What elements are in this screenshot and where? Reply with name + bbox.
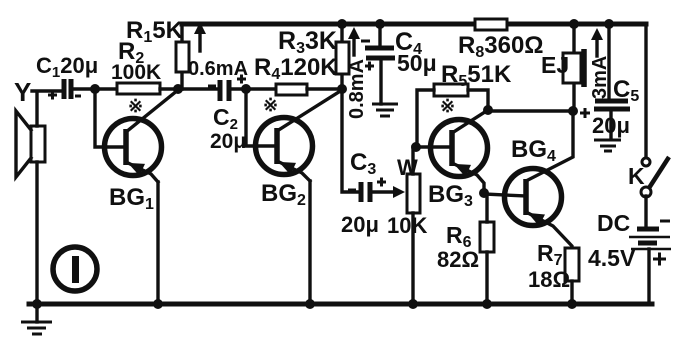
- svg-text:EJ: EJ: [541, 52, 569, 78]
- junction: R3 top at rail: [337, 19, 347, 29]
- svg-text:K: K: [628, 163, 645, 189]
- junction: EJ tap on top rail: [569, 19, 579, 29]
- resistor R2: [117, 83, 160, 94]
- capacitor C4: [361, 24, 395, 71]
- resistor R1: [176, 24, 189, 89]
- switch K: [641, 157, 669, 229]
- svg-text:R8360Ω: R8360Ω: [458, 32, 544, 61]
- svg-text:18Ω: 18Ω: [528, 267, 570, 292]
- svg-text:R551K: R551K: [441, 61, 512, 90]
- junction: BG1 emitter at ground rail: [153, 299, 163, 309]
- svg-text:R33K: R33K: [278, 27, 337, 57]
- wire: C2 to node C and R4: [233, 87, 276, 90]
- ground below C5: [594, 140, 621, 151]
- wire: microphone to ground rail: [35, 162, 38, 304]
- wire: bottom ground rail: [29, 302, 652, 307]
- svg-text:※: ※: [440, 96, 455, 116]
- svg-text:4.5V: 4.5V: [588, 245, 636, 271]
- transistor BG3: [431, 110, 489, 193]
- capacitor C5: [580, 24, 630, 138]
- wire: R2 to node B and C2: [160, 87, 219, 90]
- svg-text:※: ※: [263, 95, 278, 115]
- resistor R3: [336, 24, 349, 89]
- svg-text:※: ※: [128, 96, 143, 116]
- svg-text:Y: Y: [14, 77, 31, 107]
- wire: right side rail down to switch K: [644, 24, 647, 157]
- battery DC 4.5V: [629, 221, 671, 304]
- label C4 50u: [395, 28, 437, 76]
- junction: R6 at ground rail: [482, 299, 492, 309]
- junction: EJ / BG4 collector node: [568, 106, 578, 116]
- wire: C3 to potentiometer W wiper (arrow): [372, 186, 405, 198]
- resistor R5: [417, 84, 488, 145]
- wire: node D down to C3: [342, 89, 358, 192]
- wire: base node to BG3 base: [416, 145, 452, 148]
- wire: top supply rail: [182, 22, 646, 27]
- wire: BG1 emitter to ground rail: [156, 182, 159, 304]
- svg-text:0.8mA: 0.8mA: [346, 59, 368, 119]
- annotation: 3mA current arrow: [591, 28, 603, 56]
- earphone EJ: [563, 24, 584, 107]
- wire: node C down to BG2 base: [246, 89, 277, 146]
- indicator: circled I (jack symbol): [53, 247, 97, 291]
- wire: R4 to node D: [307, 87, 342, 90]
- annotation: 0.6mA current arrow: [194, 22, 206, 51]
- resistor R7: [565, 248, 579, 304]
- wire: node F to BG4 base: [484, 194, 526, 196]
- label C2 20u: [210, 104, 246, 153]
- transistor BG1: [105, 90, 179, 182]
- junction: W bottom at ground rail: [408, 299, 418, 309]
- junction node D (BG2 collector): [337, 84, 347, 94]
- wire: node E to EJ / BG4 collector node: [488, 109, 573, 112]
- wire: node A down to BG1 base: [95, 89, 126, 147]
- svg-text:W: W: [397, 155, 418, 180]
- capacitor C2: [208, 75, 246, 102]
- wire: microphone top lead to C1: [32, 91, 62, 126]
- label R7 18ohm: [528, 240, 570, 292]
- svg-text:50μ: 50μ: [397, 50, 437, 76]
- transistor BG4: [505, 111, 574, 248]
- microphone Y symbol: [16, 111, 45, 177]
- svg-text:R15K: R15K: [126, 17, 184, 46]
- transistor BG2: [256, 90, 343, 181]
- svg-text:100K: 100K: [111, 61, 161, 84]
- junction node E (BG3 collector / R5): [483, 105, 493, 115]
- svg-text:20μ: 20μ: [210, 130, 246, 153]
- junction: R7 at ground rail: [567, 299, 577, 309]
- svg-text:C120μ: C120μ: [36, 53, 98, 81]
- annotation: 0.8mA current arrow: [348, 27, 360, 55]
- resistor R6: [480, 194, 494, 304]
- wire: C1 to node A: [73, 87, 117, 90]
- svg-text:10K: 10K: [387, 213, 427, 238]
- junction node F (BG3 emitter / BG4 base / R6): [479, 188, 489, 198]
- svg-text:0.6mA: 0.6mA: [188, 58, 248, 80]
- junction node C (BG2 base): [241, 84, 251, 94]
- resistor R8 (in series with top rail): [475, 19, 507, 30]
- capacitor C3: [348, 178, 386, 203]
- junction node A (BG1 base): [90, 84, 100, 94]
- svg-text:DC: DC: [597, 210, 630, 236]
- junction: W top / BG3 base node: [411, 142, 421, 152]
- junction: microphone at ground rail: [32, 299, 42, 309]
- svg-text:R4120K: R4120K: [254, 54, 338, 83]
- junction: C4 tap on top rail: [375, 19, 385, 29]
- svg-text:82Ω: 82Ω: [437, 247, 479, 272]
- junction node B (BG1 collector): [173, 84, 183, 94]
- junction: BG2 emitter at ground rail: [305, 299, 315, 309]
- junction: C5 tap on top rail: [604, 19, 614, 29]
- potentiometer W: [407, 147, 420, 304]
- ground: main at bottom left: [21, 304, 52, 334]
- wire: BG2 emitter to ground rail: [308, 181, 311, 304]
- resistor R4: [276, 84, 307, 95]
- svg-text:20μ: 20μ: [341, 212, 379, 237]
- label R6 82ohm: [437, 222, 479, 272]
- ground below C4: [372, 60, 398, 116]
- capacitor C1: [48, 79, 81, 100]
- label R2 100K: [111, 38, 161, 84]
- svg-text:20μ: 20μ: [592, 113, 630, 138]
